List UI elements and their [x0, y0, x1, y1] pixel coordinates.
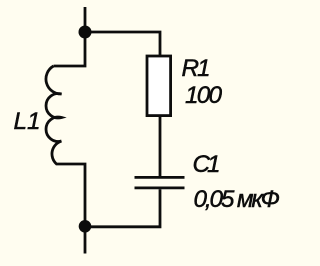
svg-text:R1: R1: [182, 55, 211, 82]
svg-text:C1: C1: [193, 151, 221, 178]
svg-text:100: 100: [185, 82, 222, 109]
svg-text:L1: L1: [14, 108, 41, 135]
svg-text:0,05 мкФ: 0,05 мкФ: [194, 186, 281, 213]
